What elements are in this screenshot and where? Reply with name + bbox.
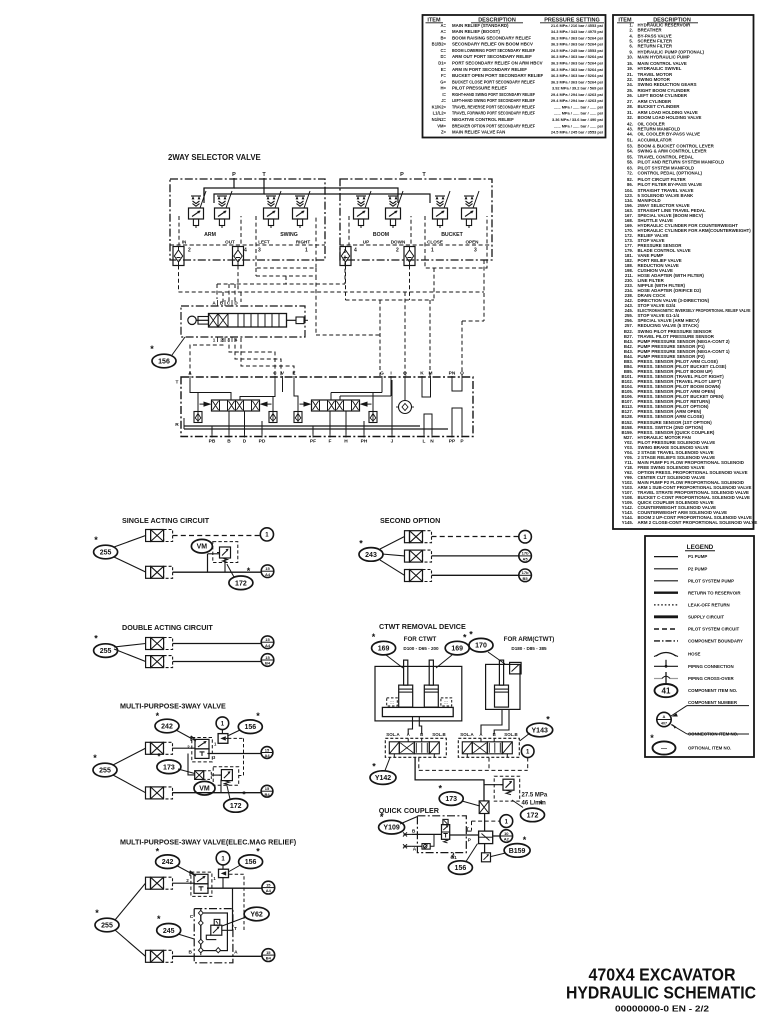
svg-text:24.5 MPa / 245 bar / 3553 psi: 24.5 MPa / 245 bar / 3553 psi: [551, 48, 603, 53]
svg-text:B4: B4: [266, 956, 272, 961]
callout oval B159: [504, 835, 530, 857]
leader 169 right: [436, 655, 452, 668]
svg-text:L1/L2=: L1/L2=: [433, 111, 447, 116]
svg-text:29.4 MPa / 294 bar / 4263 psi: 29.4 MPa / 294 bar / 4263 psi: [551, 92, 603, 97]
svg-text:...... MPa / ...... bar / ....: ...... MPa / ...... bar / ...... psi: [554, 123, 603, 128]
stop valve elec bottom: [146, 950, 173, 962]
svg-text:6.: 6.: [629, 44, 633, 49]
svg-text:REDUCING VALVE (5 STACK): REDUCING VALVE (5 STACK): [638, 323, 700, 328]
wire relief feed ctwt: [484, 784, 503, 786]
svg-text:Y142: Y142: [375, 775, 391, 782]
wire main line1 elec: [207, 887, 262, 889]
wire L N step: [424, 414, 432, 434]
svg-text:ACCUMULATOR: ACCUMULATOR: [638, 137, 673, 142]
svg-text:*: *: [256, 711, 260, 721]
callout oval 255 mp3: [93, 753, 117, 777]
wire pilot dashed run B2: [315, 276, 317, 335]
svg-text:24.: 24.: [627, 82, 633, 87]
svg-text:P: P: [232, 172, 236, 178]
svg-text:17b: 17b: [522, 551, 529, 556]
direction valve 242 mp3: [191, 736, 209, 759]
pilot reducing valve arm in: [189, 196, 204, 228]
callout oval 170: [469, 630, 493, 653]
svg-text:32.: 32.: [627, 115, 633, 120]
svg-text:PF: PF: [310, 439, 316, 445]
svg-text::::: :::: [444, 701, 448, 705]
svg-text:P1 PUMP: P1 PUMP: [688, 554, 707, 559]
svg-text:MULTI-PURPOSE-3WAY VALVE: MULTI-PURPOSE-3WAY VALVE: [120, 702, 226, 711]
svg-text:29.4 MPa / 294 bar / 4263 psi: 29.4 MPa / 294 bar / 4263 psi: [551, 98, 603, 103]
boundary dashed L elec: [229, 874, 244, 930]
svg-text:A=: A=: [441, 29, 447, 34]
wire P line qc: [450, 834, 479, 836]
wire relief to line2 mp3: [220, 779, 222, 792]
svg-text:M: M: [429, 371, 433, 377]
svg-text:156: 156: [158, 359, 170, 366]
wire circle1 to block mp3: [221, 730, 223, 734]
wire block to line elec: [222, 878, 224, 889]
wire arm cyl to sol right: [481, 709, 502, 734]
callout oval Y143: [527, 715, 553, 737]
svg-text:SWING REDUCTION GEARS: SWING REDUCTION GEARS: [638, 82, 697, 87]
svg-text:*: *: [539, 799, 543, 809]
svg-text:*: *: [157, 914, 161, 924]
svg-text:SECOND OPTION: SECOND OPTION: [380, 516, 440, 525]
svg-text:*: *: [463, 633, 467, 643]
svg-text:BREAKER OPTION PORT SECONDARY: BREAKER OPTION PORT SECONDARY RELIEF: [452, 123, 535, 128]
svg-text:A: A: [234, 950, 238, 956]
wire dashed to reservoir so: [432, 536, 519, 538]
svg-text:10: 10: [504, 831, 509, 836]
svg-text:PILOT SYSTEM CIRCUIT: PILOT SYSTEM CIRCUIT: [688, 627, 740, 632]
svg-text:2: 2: [186, 878, 189, 883]
callout oval 173 ctwt: [439, 784, 464, 806]
component boundary 2way selector left box: [170, 179, 325, 260]
pilot reducing valve boom up: [354, 196, 369, 228]
svg-text:156: 156: [244, 724, 256, 731]
svg-text:VM=: VM=: [437, 123, 446, 128]
wire A line qc: [412, 845, 422, 847]
wire PN O step: [452, 380, 462, 391]
wire pilot feeds: [203, 188, 205, 196]
svg-text:LEGEND: LEGEND: [687, 544, 714, 551]
wire A port line elec: [218, 949, 236, 951]
svg-text:HYDRAULIC SCHEMATIC: HYDRAULIC SCHEMATIC: [566, 983, 756, 1003]
svg-text:OPTIONAL ITEM NO.: OPTIONAL ITEM NO.: [688, 746, 731, 751]
wire T branch down elec: [232, 888, 234, 930]
svg-text:MAIN RELIEF (BOOST): MAIN RELIEF (BOOST): [452, 29, 500, 34]
svg-text:RETURN TO RESERVOIR: RETURN TO RESERVOIR: [688, 590, 741, 595]
svg-text:MULTI-PURPOSE-3WAY VALVE(ELEC.: MULTI-PURPOSE-3WAY VALVE(ELEC.MAG RELIEF…: [120, 838, 297, 847]
wire selector top feeds: [222, 292, 224, 302]
inner box 245: [201, 913, 228, 951]
svg-text:3: 3: [227, 338, 230, 343]
svg-text:SOL.A: SOL.A: [386, 732, 400, 737]
svg-text:19.: 19.: [627, 66, 633, 71]
boundary dvalve dashed elec: [191, 872, 212, 896]
svg-text:OUT: OUT: [225, 240, 235, 245]
svg-text:SUPPLY CIRCUIT: SUPPLY CIRCUIT: [688, 614, 724, 619]
svg-text:A4: A4: [264, 753, 270, 758]
svg-text:VM: VM: [199, 786, 210, 793]
svg-text:LEAK-OFF RETURN: LEAK-OFF RETURN: [688, 603, 730, 608]
svg-text:44.: 44.: [627, 131, 633, 136]
svg-text:DOUBLE ACTING CIRCUIT: DOUBLE ACTING CIRCUIT: [122, 623, 213, 632]
svg-text:4: 4: [235, 338, 238, 343]
svg-text:PILOT FILTER BY-PASS VALVE: PILOT FILTER BY-PASS VALVE: [638, 182, 703, 187]
callout oval 243: [359, 539, 383, 562]
wire relief connections mp3: [211, 774, 221, 776]
connection circle 15/A4 elec: [262, 881, 275, 894]
wire circle1 to block elec: [222, 865, 224, 869]
svg-text:SOL.B: SOL.B: [432, 732, 445, 737]
svg-text:41: 41: [662, 686, 671, 695]
svg-text:D1=: D1=: [438, 60, 446, 65]
leader 172 ctwt: [512, 800, 523, 808]
callout oval 156 elec: [239, 847, 263, 869]
svg-text:255: 255: [101, 923, 113, 930]
svg-text:---: ---: [661, 747, 667, 753]
svg-text:T: T: [234, 926, 237, 932]
pilot reducing valve arm out: [215, 196, 230, 228]
svg-text:51.: 51.: [627, 137, 633, 142]
svg-text:*: *: [523, 835, 527, 845]
connection circle 15/A4 single: [261, 565, 274, 578]
callout oval 156 mp3: [238, 711, 262, 734]
check valve arm port 2: [173, 247, 184, 266]
svg-text:ARM 2 CLOSE-CONT PROPORTIONAL: ARM 2 CLOSE-CONT PROPORTIONAL SOLENOID V…: [638, 520, 758, 525]
connection circle 1 qc: [500, 815, 513, 828]
svg-text:26.: 26.: [627, 93, 633, 98]
svg-text:OIL COOLER BY-PASS VALVE: OIL COOLER BY-PASS VALVE: [638, 131, 701, 136]
leader 172 single: [227, 564, 234, 577]
wire selector to manifold A: [190, 338, 223, 376]
svg-text:27.5 MPa: 27.5 MPa: [522, 793, 548, 799]
svg-text:*: *: [156, 847, 160, 857]
svg-text:P: P: [460, 439, 464, 445]
svg-text:PD: PD: [259, 439, 266, 445]
svg-text:A=: A=: [441, 23, 447, 28]
svg-text:COMPONENT BOUNDARY: COMPONENT BOUNDARY: [688, 639, 743, 644]
pilot reducing valve swing right: [293, 196, 308, 228]
svg-text:3: 3: [213, 755, 216, 760]
connection circle 15/A4 double: [261, 636, 274, 649]
svg-text:NEGATIVE CONTROL RELIEF: NEGATIVE CONTROL RELIEF: [452, 117, 514, 122]
svg-text:*: *: [372, 762, 376, 772]
boundary boom sub-box: [349, 216, 411, 245]
svg-text:LEFT: LEFT: [258, 240, 270, 245]
svg-text:E=: E=: [441, 67, 447, 72]
svg-text:C: C: [190, 914, 194, 920]
svg-text:*: *: [242, 790, 246, 800]
svg-text:2: 2: [220, 338, 223, 343]
svg-text:34.3 MPa / 343 bar / 4975 psi: 34.3 MPa / 343 bar / 4975 psi: [551, 29, 603, 34]
leader 173 mp3: [178, 769, 195, 774]
svg-text:BREATHER: BREATHER: [638, 28, 663, 33]
svg-text:BOOM: BOOM: [373, 232, 389, 238]
svg-text:B1/B2=: B1/B2=: [432, 42, 447, 47]
svg-text:...... MPa / ...... bar / ....: ...... MPa / ...... bar / ...... psi: [554, 111, 603, 116]
wire dashed bus ctwt: [418, 758, 420, 771]
coupler block 156 qc: [479, 831, 493, 844]
svg-text:242: 242: [161, 724, 173, 731]
svg-text:P: P: [468, 838, 472, 844]
svg-text:*: *: [94, 535, 98, 545]
svg-text:C: C: [227, 301, 231, 306]
svg-text:243: 243: [365, 552, 377, 559]
boundary relief dashed box single: [213, 542, 238, 563]
solenoid valve block Y143: [458, 738, 519, 757]
svg-text:A: A: [212, 301, 216, 306]
svg-text:HYDRAULIC SWIVEL: HYDRAULIC SWIVEL: [638, 66, 682, 71]
svg-text:CTWT REMOVAL DEVICE: CTWT REMOVAL DEVICE: [379, 622, 466, 631]
svg-text:RETURN FILTER: RETURN FILTER: [638, 44, 673, 49]
svg-text:156: 156: [245, 859, 257, 866]
stop valve mp3 top: [146, 742, 173, 754]
svg-text:H: H: [344, 439, 348, 445]
svg-text:10.: 10.: [627, 55, 633, 60]
svg-text:2WAY SELECTOR VALVE: 2WAY SELECTOR VALVE: [168, 153, 261, 162]
svg-text:C: C: [273, 371, 277, 377]
svg-text:BOOM RAISING SECONDARY RELIEF: BOOM RAISING SECONDARY RELIEF: [452, 35, 531, 40]
svg-text:1: 1: [305, 248, 308, 254]
svg-text:G=: G=: [440, 79, 446, 84]
svg-text:407: 407: [661, 721, 667, 725]
hose connector A: [404, 845, 412, 847]
svg-text:H=: H=: [441, 86, 447, 91]
connection circle 1 elec: [216, 851, 230, 865]
wire selector to manifold C: [229, 338, 275, 376]
svg-text:36.3 MPa / 363 bar / 5264 psi: 36.3 MPa / 363 bar / 5264 psi: [551, 73, 603, 78]
svg-text:R: R: [175, 422, 179, 428]
leader 170: [488, 652, 505, 664]
svg-text:36.3 MPa / 363 bar / 5264 psi: 36.3 MPa / 363 bar / 5264 psi: [551, 60, 603, 65]
svg-text:173: 173: [163, 764, 175, 771]
connection circle 10/A2: [500, 830, 513, 843]
svg-text:J=: J=: [441, 98, 446, 103]
boundary 245 box: [194, 909, 233, 963]
wire 255 leaders mp3: [113, 748, 146, 765]
svg-text:IN: IN: [182, 240, 187, 245]
svg-text:*: *: [256, 847, 260, 857]
callout oval VM: [191, 539, 212, 553]
stop valve 173 vertical: [479, 801, 489, 814]
svg-text:PIPING CONNECTION: PIPING CONNECTION: [688, 664, 734, 669]
svg-text:1: 1: [213, 876, 216, 881]
wire cyl to sol A left: [408, 717, 412, 734]
hose connector B: [404, 833, 412, 835]
wire T port line elec: [222, 929, 233, 931]
svg-text:TRAVEL REVERSE PORT SECONDARY: TRAVEL REVERSE PORT SECONDARY RELIEF: [452, 104, 535, 109]
svg-text:4: 4: [354, 248, 357, 254]
svg-text:17b: 17b: [522, 570, 529, 575]
svg-text:RIGHT: RIGHT: [296, 240, 310, 245]
svg-text:D: D: [234, 301, 238, 306]
svg-text:HOSE: HOSE: [688, 652, 701, 657]
svg-text:1: 1: [214, 741, 217, 746]
svg-text:169: 169: [451, 646, 463, 653]
svg-text:B4: B4: [264, 792, 270, 797]
port relief valve 3: [294, 412, 302, 423]
svg-text:A4: A4: [265, 572, 271, 577]
wire main down qc: [484, 814, 486, 832]
svg-text:54.: 54.: [627, 149, 633, 154]
boundary bucket sub-box: [425, 216, 487, 268]
stop valve so-3: [405, 570, 432, 582]
svg-text:255: 255: [100, 550, 112, 557]
wire line3 so: [432, 574, 519, 576]
connection circle 15/B4 elec: [262, 949, 275, 962]
svg-text:I=: I=: [442, 92, 446, 97]
spool valve block 1: [200, 400, 272, 411]
svg-text:MAIN HYDRAULIC PUMP: MAIN HYDRAULIC PUMP: [638, 55, 690, 60]
svg-text:*: *: [439, 784, 443, 794]
wire P rail: [204, 178, 234, 203]
callout oval 156 qc: [448, 853, 472, 874]
leader Y109: [400, 817, 417, 825]
leader 156 qc: [466, 844, 478, 862]
component boundary selector 156: [181, 306, 305, 337]
breather box right: [441, 698, 452, 706]
svg-text:36.3 MPa / 363 bar / 5264 psi: 36.3 MPa / 363 bar / 5264 psi: [551, 35, 603, 40]
wire main supply ctwt: [415, 758, 484, 801]
svg-text:*: *: [451, 853, 455, 863]
boundary relief dashed ctwt: [494, 776, 520, 801]
svg-text:PIPING CROSS-OVER: PIPING CROSS-OVER: [688, 676, 734, 681]
connection circle 15/B4 double: [261, 654, 274, 667]
svg-text:BOOM LOAD HOLDING VALVE: BOOM LOAD HOLDING VALVE: [638, 115, 702, 120]
svg-text:2: 2: [188, 248, 191, 254]
svg-text:LEFT-HAND SWING PORT SECONDARY: LEFT-HAND SWING PORT SECONDARY RELIEF: [452, 98, 535, 103]
wire dashed T to circle1: [472, 820, 500, 822]
svg-text:BUCKET: BUCKET: [441, 232, 463, 238]
svg-text:36.3 MPa / 363 bar / 5264 psi: 36.3 MPa / 363 bar / 5264 psi: [551, 67, 603, 72]
svg-text:PILOT AND RETURN SYSTEM MANIFO: PILOT AND RETURN SYSTEM MANIFOLD: [638, 160, 725, 165]
callout oval 173 mp3: [157, 752, 181, 774]
svg-text:2: 2: [187, 745, 190, 750]
svg-text:CONTROL PEDAL (OPTIONAL): CONTROL PEDAL (OPTIONAL): [638, 171, 703, 176]
svg-text:1: 1: [213, 338, 216, 343]
svg-text:15: 15: [265, 637, 270, 642]
svg-text:15: 15: [266, 950, 271, 955]
leader 173 ctwt: [462, 801, 480, 806]
svg-text:G: G: [380, 371, 384, 377]
svg-text:SECONDARY RELIEF ON BOOM HBCV: SECONDARY RELIEF ON BOOM HBCV: [452, 42, 533, 47]
leader 172 mp3: [227, 785, 230, 799]
svg-text:36.3 MPa / 363 bar / 5264 psi: 36.3 MPa / 363 bar / 5264 psi: [551, 42, 603, 47]
svg-text:B: B: [188, 950, 192, 956]
svg-text:3: 3: [474, 248, 477, 254]
svg-text:ARM IN PORT SECONDARY RELIEF: ARM IN PORT SECONDARY RELIEF: [452, 67, 527, 72]
solenoid valve Y62 symbol: [206, 919, 222, 939]
table pressure settings: [423, 15, 606, 138]
wire branch down mp3: [188, 754, 195, 775]
svg-text:F=: F=: [441, 73, 447, 78]
svg-text:A5: A5: [523, 557, 529, 562]
svg-text:3.92 MPa / 39.2 bar / 569 psi: 3.92 MPa / 39.2 bar / 569 psi: [552, 86, 603, 91]
pilot reducing valve swing left: [264, 196, 279, 228]
wire G1 stub: [453, 853, 455, 855]
leader Y142: [385, 758, 390, 771]
svg-text:24.5 MPa / 245 bar / 3553 psi: 24.5 MPa / 245 bar / 3553 psi: [551, 130, 603, 135]
stop valve elec top: [146, 877, 173, 889]
boundary quick coupler box: [417, 816, 466, 853]
svg-text:SOL.A: SOL.A: [460, 732, 474, 737]
leader 242 mp3: [176, 730, 196, 741]
svg-text:A: A: [663, 714, 666, 719]
callout oval VM mp3: [194, 781, 215, 795]
cylinder 169 left: [399, 660, 413, 707]
svg-text:255: 255: [99, 768, 111, 775]
callout oval Y62: [244, 907, 269, 921]
svg-text:DOWN: DOWN: [391, 240, 406, 245]
component boundary 2way selector right box: [340, 179, 492, 260]
svg-text:172: 172: [527, 812, 539, 819]
wire T rail: [214, 178, 264, 203]
svg-text:*: *: [93, 753, 97, 763]
svg-text:ARM: ARM: [204, 232, 216, 238]
check valve boom port 4: [340, 247, 351, 266]
callout oval Y142: [370, 762, 396, 785]
connection circle 1 ctwt: [521, 745, 534, 758]
svg-text:T: T: [176, 380, 179, 386]
svg-text:CLOSE: CLOSE: [427, 240, 443, 245]
svg-text:36.3 MPa / 363 bar / 5264 psi: 36.3 MPa / 363 bar / 5264 psi: [551, 79, 603, 84]
callout oval Y109: [379, 812, 405, 834]
svg-text:*: *: [380, 812, 384, 822]
svg-text:72.: 72.: [627, 171, 633, 176]
wire B line qc: [412, 833, 442, 835]
connection circle 15/A4 mp3: [261, 747, 273, 759]
connection circle 17b/B5: [519, 569, 532, 582]
callout oval 156: [150, 344, 176, 368]
svg-text:15: 15: [265, 566, 270, 571]
wire 255 leaders elec: [115, 883, 146, 920]
callout oval 242 mp3: [155, 711, 179, 733]
wire selector to manifold V: [235, 338, 281, 376]
check valve arm port 4: [233, 247, 244, 266]
svg-text:QUICK COUPLER: QUICK COUPLER: [379, 806, 440, 815]
check valve boom port 2: [404, 247, 415, 266]
callout oval 245: [157, 914, 181, 937]
wire line to 15/B4 double: [173, 661, 262, 663]
svg-text:172: 172: [235, 580, 247, 587]
coupler block 156 mp3: [218, 734, 228, 744]
svg-text:173: 173: [445, 796, 457, 803]
callout oval 169 right: [445, 633, 469, 655]
svg-text:3.36 MPa / 33.6 bar / 490 psi: 3.36 MPa / 33.6 bar / 490 psi: [552, 117, 603, 122]
wire main line2 elec: [172, 955, 262, 957]
svg-text:SWING: SWING: [280, 232, 298, 238]
callout oval 172 ctwt: [521, 799, 545, 822]
wire pilot dashed run D: [483, 260, 485, 321]
svg-text:86.: 86.: [627, 182, 633, 187]
svg-text:Y62: Y62: [250, 912, 263, 919]
wire K M step: [422, 380, 431, 397]
boundary arm sub-box: [179, 216, 241, 245]
wire line to 15/A4 double: [173, 643, 262, 645]
svg-text:D: D: [243, 439, 247, 445]
port relief valve 1: [194, 412, 202, 423]
coupler block 156 elec: [219, 869, 229, 877]
stop valve 255-top: [146, 530, 173, 542]
svg-text:2: 2: [396, 248, 399, 254]
wire pilot dashed run A: [178, 266, 180, 293]
svg-text:470X4 EXCAVATOR: 470X4 EXCAVATOR: [589, 965, 736, 985]
svg-text:242: 242: [162, 859, 174, 866]
wire main line1 mp3: [207, 753, 261, 755]
svg-text:TRAVEL FORWARD PORT SECONDARY: TRAVEL FORWARD PORT SECONDARY RELIEF: [452, 111, 535, 116]
